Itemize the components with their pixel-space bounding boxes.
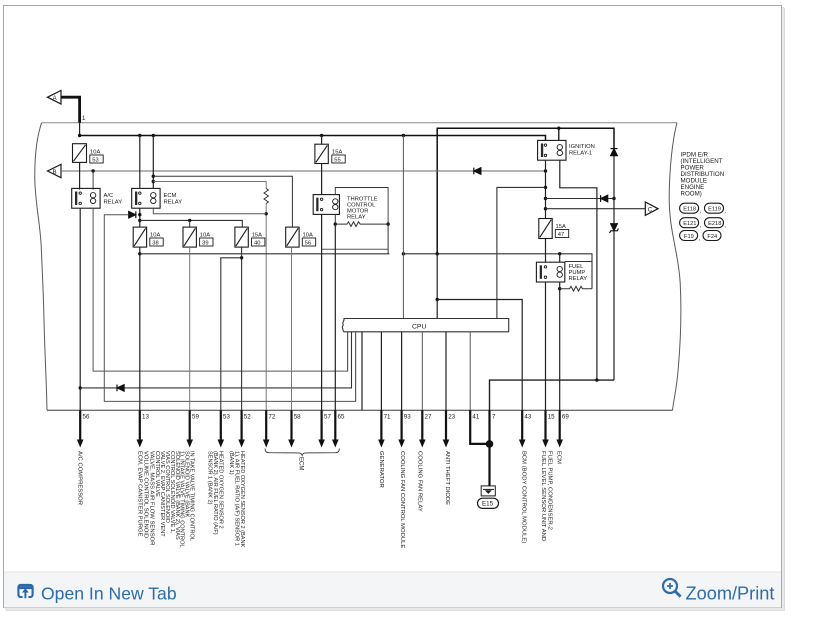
ignition coil return wire [560,160,597,380]
wire fuse39 to pin 59 [189,247,191,410]
svg-text:E218: E218 [708,221,721,227]
svg-text:38: 38 [152,241,158,247]
ECM relay U2 [132,188,160,208]
node bus/CPU feed [402,134,405,137]
svg-text:FUEL LEVEL SENSOR UNIT AND: FUEL LEVEL SENSOR UNIT AND [540,451,546,541]
svg-text:69: 69 [562,414,569,421]
wire pin1 to bus [79,123,81,137]
main power bus [80,136,546,141]
diode on L2 [117,385,124,392]
svg-text:VOLUME CONTROL SOLENOID: VOLUME CONTROL SOLENOID [142,451,148,538]
wire CPU to pin 71 [380,332,382,411]
ignition relay-1 U4 [538,140,566,160]
wire bus to fuse 55 [321,136,323,145]
svg-text:65: 65 [338,414,345,421]
net B line [61,170,546,172]
wire bus to CPU feed column [402,136,404,319]
wire throttle coil column to pin 65 [334,224,336,410]
svg-text:55: 55 [334,158,340,164]
fuse 10A 39 [183,227,196,247]
svg-text:ROOM): ROOM) [681,191,702,198]
wire fuse53 to A/C relay contact [79,162,81,189]
diode on branch [601,195,608,202]
connector oval E118 [680,203,699,213]
fuel pump relay U5 [536,262,564,282]
wire diode column down [613,156,615,380]
output stems with arrowheads [80,410,560,440]
node bus1 / CPU feed column [402,252,405,255]
wire to pin 43 [437,300,522,411]
wire fuse56 to pin 58 [291,247,293,410]
node resistor box corner [386,222,389,225]
wire fuel coil top to bus1 [559,254,561,262]
svg-text:43: 43 [524,414,531,421]
diode ECM contact branch [129,211,136,218]
svg-text:GENERATOR: GENERATOR [378,451,384,488]
wire fuse38 to pin 13 [139,247,141,410]
node pin43 branch / CPU column [436,298,439,301]
svg-text:23: 23 [448,414,455,421]
zoom/print icon [663,579,681,597]
wire branch to fuse 56 top [153,176,292,227]
svg-text:(BANK 1): (BANK 1) [228,451,234,475]
wire bus to ECM relay coil [152,136,154,189]
node bus/fuse53 [78,134,81,137]
svg-text:Zoom/Print: Zoom/Print [686,584,775,604]
svg-text:B: B [53,169,57,176]
svg-text:59: 59 [192,414,199,421]
connector oval E121 [680,218,699,228]
open-in-new-tab icon [18,585,32,598]
node ECM coil column / fuse56 branch [152,175,155,178]
wire line1 to ignition relay coil [558,128,560,140]
wire branch to pin 53 [221,258,242,411]
node ign contact / diode branch [544,197,547,200]
label pin 13 [136,451,154,545]
wire CPU to pin 27 [421,332,423,411]
wire CPU to pin 93 [401,332,403,411]
fuse-top bus wire [140,220,243,227]
svg-text:13: 13 [142,414,149,421]
wire to connector C [546,208,646,210]
label pin 15 [540,451,553,541]
node B/ignition contact column [544,169,547,172]
svg-text:15: 15 [548,414,555,421]
connector oval E119 [705,203,724,213]
svg-text:E15: E15 [482,501,494,508]
diode on net B [474,168,481,175]
svg-text:CONTROL VALVE: CONTROL VALVE [154,451,160,497]
zener diode D-down [610,224,619,233]
wire branch to resistor [153,182,266,189]
bus0 wire [322,248,389,250]
IPDM E/R box bottom edge [47,409,673,411]
pin 41 stem joins pin 7 [470,410,489,444]
node pin56 column / diode branch [79,386,82,389]
wire B to A/C relay coil [92,171,94,190]
wire A/C coil return L1 [93,208,348,371]
svg-text:E121: E121 [683,221,696,227]
footer bar [4,572,781,608]
svg-text:Open In New Tab: Open In New Tab [41,584,177,604]
node ign contact / CPU branch [544,186,547,189]
node fuse38 / bus1 [138,252,141,255]
svg-text:FUEL PUMP, CONDENSER-2: FUEL PUMP, CONDENSER-2 [546,451,552,530]
svg-text:7: 7 [492,414,496,421]
node bus1 / pin43 column [436,252,439,255]
node B/AC relay coil [91,169,94,172]
wire CPU column continues [436,300,438,319]
wire ECM contact bottom to fuse 38 [139,208,141,227]
svg-text:ANTI THEFT DIODE: ANTI THEFT DIODE [444,451,450,505]
wire fuse55 to throttle relay contact [321,164,323,195]
ignition contact column to fuse 47 [545,160,547,218]
node bus1 / fuel pump coil [558,252,561,255]
wire bus to ECM relay contact [139,136,141,189]
svg-text:41: 41 [472,414,479,421]
ground symbol E15 [481,486,495,496]
wire fuse47 to fuel pump relay [545,239,547,263]
resistor R1 (ECM relay shunt) [264,189,268,204]
svg-text:ECM: ECM [164,193,177,199]
wire fuel pump contact to pin 15 [545,282,547,410]
svg-text:RELAY: RELAY [347,215,366,221]
wire CPU to pin 23 [445,332,447,411]
node fuse-top bus [138,219,141,222]
svg-text:39: 39 [202,241,208,247]
connector triangle A [48,91,62,105]
node diode/contact column [138,213,141,216]
upper branch wire (line1) [437,128,614,254]
IPDM E/R name block [681,152,725,198]
CPU riser to L1 [347,332,349,371]
A/C relay U1 [72,188,100,208]
node fuel coil / resistor [558,287,561,290]
svg-text:ECM: ECM [556,451,562,464]
CPU riser to L2 [351,332,353,388]
node diode column [612,197,615,200]
node ign contact / C branch [544,207,547,210]
node bus/ECM relay coil [152,134,155,137]
svg-text:58: 58 [294,414,301,421]
wire fuel coil bottom node [559,282,561,289]
svg-text:SENSOR 1 (BANK 2): SENSOR 1 (BANK 2) [206,451,212,505]
wire ign contact to diode column [546,198,615,200]
connector oval E218 [705,218,724,228]
wire fuel pump coil to pin 69 [559,289,561,411]
connector oval F19 [680,231,698,241]
label pin 53 [206,451,223,535]
svg-text:RELAY: RELAY [569,276,588,282]
svg-text:53: 53 [92,158,98,164]
resistor R3 (fuel pump relay shunt) [560,286,592,291]
wire H380 ign coil + diode return to pin 7 [490,380,615,410]
svg-text:BCM (BODY CONTROL MODULE): BCM (BODY CONTROL MODULE) [520,451,526,543]
bus1 left segment [140,253,390,255]
svg-text:27: 27 [425,414,432,421]
svg-text:C: C [648,207,653,214]
svg-text:52: 52 [244,414,251,421]
svg-text:A/C COMPRESSOR: A/C COMPRESSOR [76,451,82,505]
pin 7 stem to ground [488,410,490,485]
wire CPU to pin 41 [469,332,471,411]
svg-text:47: 47 [558,232,564,238]
wire ign contact to CPU top [497,187,546,318]
svg-text:COOLING FAN CONTROL MODULE: COOLING FAN CONTROL MODULE [399,451,405,548]
svg-text:IGNITION: IGNITION [569,144,595,150]
ground connector oval E15 [478,498,499,508]
svg-text:ECM: ECM [298,457,304,470]
svg-text:71: 71 [384,414,391,421]
wire resistor to pin 72 column [265,204,267,411]
wire fuse40 to pin 52 [241,247,243,410]
CPU riser to L3 [355,332,357,402]
node fuse40 / pin53 branch [240,256,243,259]
fuse 15A 55 [315,144,328,163]
node resistor/coil return [265,212,268,215]
svg-text:57: 57 [324,414,331,421]
fuse 10A 56 [286,227,299,247]
IPDM E/R box torn right edge [669,123,681,411]
svg-text:E118: E118 [683,207,696,213]
CPU stub wire to box edge [361,332,363,411]
svg-text:RELAY: RELAY [164,200,183,206]
IPDM E/R box top edge [42,122,677,124]
wire ECM coil bottom to resistor node [153,208,266,214]
node H380 / ign coil column [595,378,598,381]
label pin 59 [154,451,194,548]
wire resistor box to bus0 [387,224,389,254]
arrowheads [77,440,563,448]
svg-text:CPU: CPU [412,323,426,330]
wire to fuse 39 top [189,220,191,227]
svg-text:A/C: A/C [104,193,114,199]
wire A/C contact to pin 56 [79,208,81,410]
CPU box [342,319,508,332]
node throttle coil/resistor [334,222,337,225]
connector oval F24 [703,231,721,241]
connector triangle B [48,164,62,177]
pin numbers row [83,414,570,421]
wire L2 with diode to CPU [80,332,351,388]
node ECM coil column / resistor branch [152,180,155,183]
svg-text:40: 40 [254,241,260,247]
wire diode branch down-right L3 [104,215,355,402]
svg-text:F19: F19 [684,234,694,240]
throttle control motor relay U3 [313,195,339,215]
svg-text:F24: F24 [707,234,717,240]
svg-text:72: 72 [268,414,275,421]
connector triangle C [645,202,658,215]
node fuse-top bus / fuse39 [188,219,191,222]
svg-text:56: 56 [83,414,90,421]
svg-text:56: 56 [305,241,311,247]
resistor R2 (throttle relay shunt) [335,222,388,227]
fuel pump relay shunt resistor box top [565,261,592,263]
ECM bracket brace [265,449,339,456]
label pin 52 [228,451,245,548]
fuse 10A 53 [73,144,87,163]
IPDM E/R box torn left edge [35,123,47,411]
throttle relay shunt resistor box [335,188,388,225]
svg-text:VALVE, MASS AIR FLOW SENSOR: VALVE, MASS AIR FLOW SENSOR [148,451,154,545]
fuse 15A 40 [235,227,248,247]
svg-text:53: 53 [223,414,230,421]
node bus/ECM relay contact [138,134,141,137]
node line1/ignition coil [557,127,560,130]
wire throttle coil bottom to node [334,214,336,224]
diode D-up (on line1 column) [611,149,618,156]
svg-text:COOLING FAN RELAY: COOLING FAN RELAY [417,451,423,512]
node pins 41/7 [486,440,494,448]
svg-text:RELAY: RELAY [104,200,123,206]
wire pin43 column [436,254,438,300]
node bus/fuse55 [320,134,323,137]
svg-text:93: 93 [404,414,411,421]
thick supply wire from A into pin 1 [61,97,80,123]
bus1 right segment [403,254,592,289]
svg-text:RELAY-1: RELAY-1 [569,151,592,157]
wire throttle contact to pin 57 [321,214,323,410]
fuse 10A 38 [133,227,146,247]
fuse 15A 47 [539,219,552,239]
svg-text:ECM, EVAP CANISTER PURGE: ECM, EVAP CANISTER PURGE [136,451,142,537]
svg-text:E119: E119 [708,207,721,213]
